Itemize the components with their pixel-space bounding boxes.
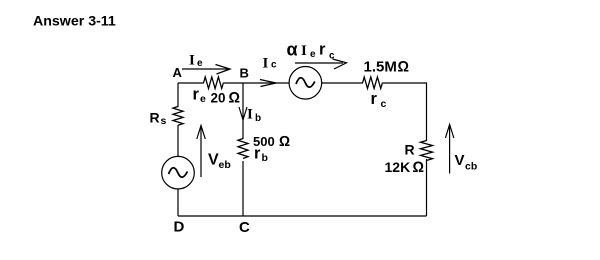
label R_s (150, 110, 167, 128)
label r_c below (371, 90, 387, 110)
wire R down to bottom right corner (426, 159, 428, 216)
arrow V_eb (200, 126, 202, 177)
svg-text:R: R (150, 110, 160, 126)
svg-text:r: r (319, 41, 326, 59)
svg-text:20: 20 (211, 91, 226, 106)
svg-text:D: D (174, 219, 185, 236)
label r_e 20ohm (193, 86, 241, 107)
svg-text:eb: eb (219, 159, 231, 171)
label r_b (254, 145, 268, 165)
sine symbol in voltage source (169, 168, 188, 177)
svg-text:R: R (405, 142, 415, 158)
wire current source to r_c (322, 82, 363, 84)
resistor r_b 500ohm (238, 139, 248, 159)
arrow V_cb (449, 125, 451, 174)
label alpha I_e r_c (287, 40, 336, 62)
wire R_s to source (177, 125, 179, 157)
wire source to D corner (177, 189, 179, 216)
svg-text:1.5M: 1.5M (364, 59, 397, 76)
svg-text:V: V (208, 152, 219, 169)
label V_eb (208, 152, 231, 172)
wire B down to r_b (242, 83, 244, 139)
svg-text:r: r (193, 86, 200, 104)
node B wire to current source (243, 82, 289, 84)
svg-text:B: B (240, 66, 249, 81)
svg-text:Ω: Ω (279, 134, 290, 150)
label 12Kohm (385, 159, 425, 176)
svg-text:e: e (197, 58, 203, 69)
wire r_c to top right corner and down (383, 83, 427, 141)
label I_b (247, 107, 261, 125)
resistor r_c 1.5Mohm (363, 77, 383, 89)
svg-text:I: I (189, 53, 195, 69)
svg-text:e: e (200, 93, 206, 105)
arrow I_e (182, 68, 228, 70)
label 500ohm (253, 134, 290, 150)
svg-text:Answer 3-11: Answer 3-11 (33, 14, 116, 30)
wire r_b to C (242, 161, 244, 216)
svg-text:b: b (255, 113, 261, 124)
resistor R 12Kohm (421, 141, 433, 161)
arrow for alpha Ie rc (295, 62, 343, 64)
svg-text:C: C (239, 219, 250, 236)
svg-text:r: r (371, 90, 378, 108)
svg-text:12K: 12K (385, 159, 411, 175)
arrowhead I_b on wire (239, 107, 247, 120)
wire A down to R_s (177, 83, 179, 107)
label I_c (263, 56, 278, 72)
svg-text:c: c (271, 60, 277, 71)
svg-text:cb: cb (465, 161, 477, 173)
label V_cb (455, 152, 478, 173)
sine symbol in current source (296, 78, 315, 87)
svg-text:b: b (262, 152, 268, 164)
wire A to r_e (178, 82, 204, 84)
label I_e (189, 53, 203, 70)
bottom wire D to C to right (178, 215, 427, 217)
wire r_e to B (224, 82, 243, 84)
svg-text:e: e (310, 49, 316, 60)
svg-text:A: A (173, 65, 183, 80)
resistor R_s (173, 107, 183, 126)
svg-text:I: I (247, 107, 253, 123)
svg-text:Ω: Ω (398, 59, 410, 76)
svg-text:I: I (301, 43, 307, 59)
svg-text:c: c (381, 98, 387, 110)
current source U1 (alpha Ie rc) (289, 67, 322, 100)
svg-text:Ω: Ω (229, 90, 241, 107)
svg-text:r: r (254, 145, 261, 163)
svg-text:V: V (455, 152, 465, 169)
label 1.5Mohm (364, 59, 410, 76)
voltage source V1 circle (162, 156, 195, 189)
arrowhead I_c on wire (260, 80, 276, 87)
svg-text:α: α (287, 40, 298, 60)
svg-text:Ω: Ω (413, 159, 425, 176)
resistor r_e 20ohm R-AB (204, 77, 224, 89)
svg-text:s: s (161, 115, 167, 127)
svg-text:I: I (263, 56, 269, 72)
